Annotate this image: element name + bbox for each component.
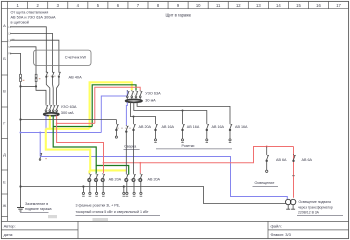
svg-text:Е: Е	[3, 180, 6, 185]
svg-text:Освещение подвала: Освещение подвала	[299, 200, 331, 204]
breaker welding phase AB 20A	[133, 117, 136, 174]
label RCD1	[61, 104, 77, 115]
wire: feed to welding pole breaker	[21, 119, 117, 121]
svg-text:4: 4	[77, 3, 80, 8]
label AB 6A no.2	[302, 158, 313, 162]
label AB 6A no.1	[276, 158, 287, 162]
label AB 20A welding	[139, 125, 152, 129]
svg-text:300 мА: 300 мА	[61, 110, 74, 115]
svg-text:АВ 16А: АВ 16А	[162, 125, 175, 129]
svg-text:3: 3	[57, 3, 60, 8]
svg-text:АВ 40А: АВ 40А	[69, 75, 83, 80]
svg-text:Фамил: 3/3: Фамил: 3/3	[271, 232, 292, 237]
wires: AB40A outputs to RCD1	[46, 77, 59, 104]
svg-text:7: 7	[137, 3, 140, 8]
svg-text:15: 15	[296, 3, 301, 8]
note: feed from branch panel	[11, 11, 56, 25]
label: basement lighting via transformer	[297, 200, 343, 215]
svg-text:Сварка: Сварка	[124, 144, 136, 148]
svg-text:В: В	[3, 89, 6, 94]
svg-text:1: 1	[16, 3, 19, 8]
wire L2 supply	[8, 34, 52, 73]
RCD U1 УЗО 63А 300мА (4-pole)	[44, 104, 59, 115]
svg-text:дата:: дата:	[4, 232, 14, 237]
node: group2 PE tap	[123, 185, 125, 187]
svg-text:А: А	[3, 23, 6, 28]
svg-text:14: 14	[276, 3, 281, 8]
RCD U2 УЗО 63А 30мА (4-pole)	[126, 90, 143, 102]
svg-text:файл:: файл:	[271, 224, 282, 229]
svg-text:2: 2	[37, 3, 40, 8]
wire N blue: branch down	[39, 133, 41, 157]
labels AB 16A row	[162, 125, 249, 129]
node: welding phase tap	[133, 116, 135, 118]
title block (author / date / file rows)	[1, 221, 348, 238]
group1 PE terminal	[82, 187, 85, 197]
wire green: branch down to socket groups	[53, 127, 129, 175]
node: middle feed junction	[19, 118, 21, 120]
wire yellow: RCD1 pole2 down	[49, 116, 51, 129]
wire red: up-loop to RCD2	[95, 87, 140, 123]
svg-text:Б: Б	[3, 56, 6, 61]
svg-text:16: 16	[316, 3, 321, 8]
svg-text:N: N	[8, 47, 10, 49]
wire yellow: branch down to socket groups	[46, 129, 127, 171]
svg-text:АВ 6А: АВ 6А	[276, 158, 287, 162]
svg-text:в щитовой: в щитовой	[11, 21, 29, 25]
wire red: lighting branch down	[293, 147, 295, 198]
svg-text:PE: PE	[8, 54, 12, 56]
node: AB16A no.2 tap	[182, 110, 184, 112]
svg-text:Счетчик kW: Счетчик kW	[65, 54, 87, 59]
svg-text:L2: L2	[8, 34, 11, 36]
wire: RCD2 out to AB16A no.2 and no.3	[134, 102, 207, 123]
wire: N link to meter output	[21, 85, 37, 87]
transformer T1 220/12V	[286, 199, 296, 209]
label AB 20A group1	[109, 177, 122, 181]
svg-text:17: 17	[336, 3, 341, 8]
wire green: stub to G1 breaker2	[95, 166, 97, 174]
wire L1 supply	[8, 27, 46, 73]
breaker welding pole A	[115, 120, 118, 139]
wire N blue: RCD1 pole1 down	[45, 116, 47, 133]
label sockets circuit	[156, 144, 232, 149]
svg-text:8: 8	[157, 3, 160, 8]
socket breakers AB 16A x4	[154, 123, 232, 142]
svg-text:УЗО 63А: УЗО 63А	[61, 104, 77, 109]
wire red: RCD1 pole4 down	[56, 116, 58, 124]
svg-text:От щита ответвления: От щита ответвления	[11, 11, 49, 15]
node blue branch	[39, 132, 41, 134]
node: PE bus junction	[19, 185, 21, 187]
label welding circuit	[124, 144, 140, 149]
wire green: RCD1 pole3 down	[52, 116, 54, 127]
svg-text:АВ 16А: АВ 16А	[212, 125, 225, 129]
label AB 40A	[69, 75, 83, 80]
svg-text:УЗО 63А: УЗО 63А	[145, 92, 161, 96]
wire: N into RCD1	[36, 86, 46, 104]
node red corner	[56, 123, 58, 125]
pole link dashes RCD1	[47, 107, 56, 109]
svg-text:30 мА: 30 мА	[145, 99, 156, 103]
wire green: upper horizontal	[53, 126, 92, 128]
wire yellow: up-loop to RCD2	[90, 82, 132, 129]
svg-text:токарный станок 5 кВт и сверли: токарный станок 5 кВт и сверлильный 1 кВ…	[76, 210, 149, 214]
node blue on riser	[20, 132, 22, 134]
ground electrode symbol	[17, 206, 24, 212]
svg-text:Щит в гараже: Щит в гараже	[166, 13, 192, 18]
svg-text:АВ 16А: АВ 16А	[187, 125, 200, 129]
pole link dashes group2	[127, 179, 139, 181]
label: 3-phase sockets note	[76, 203, 161, 215]
svg-text:12: 12	[236, 3, 241, 8]
wire N blue: long run to transformer	[40, 157, 287, 200]
svg-text:Д: Д	[3, 152, 6, 157]
node: group1 PE tap	[82, 185, 84, 187]
svg-text:АВ 6А: АВ 6А	[302, 158, 313, 162]
PE bus to transformer	[21, 187, 287, 204]
wire green: up-loop to RCD2	[92, 85, 136, 127]
wire N blue: up-loop to RCD2	[101, 90, 127, 132]
node red junction G1	[103, 162, 105, 164]
svg-text:Ж: Ж	[3, 203, 7, 208]
switch on N riser	[35, 74, 40, 81]
svg-text:АВ 50А и УЗО 63А 300мА: АВ 50А и УЗО 63А 300мА	[11, 16, 56, 20]
socket group1 breakers AB 20A (3x)	[88, 173, 105, 196]
svg-text:220В/12 В 3А: 220В/12 В 3А	[298, 211, 320, 215]
wire PE supply	[8, 53, 20, 207]
svg-text:13: 13	[256, 3, 261, 8]
svg-text:5: 5	[97, 3, 100, 8]
node red junction G2	[139, 162, 141, 164]
svg-text:10: 10	[196, 3, 201, 8]
wire red: stub to G2 breaker3	[139, 163, 141, 174]
svg-text:через трансформатор: через трансформатор	[298, 206, 333, 210]
svg-text:6: 6	[117, 3, 120, 8]
svg-text:3 фазные розетки 3L + PE,: 3 фазные розетки 3L + PE,	[76, 203, 121, 207]
wire: RCD2 out to AB16A no.1	[130, 102, 155, 123]
wire N supply	[8, 47, 36, 87]
wire red: upper horizontal	[57, 122, 95, 124]
kWh meter box	[34, 50, 91, 65]
circuit breaker AB 40A (3-pole)	[46, 71, 61, 77]
wire: drop to AB16A no.2	[182, 111, 184, 124]
node: N-meter link junction	[19, 85, 21, 87]
node: lighting tap	[266, 146, 268, 148]
svg-text:Освещение: Освещение	[255, 181, 275, 185]
wire N blue: horizontal to PE riser	[21, 132, 102, 134]
label: meter kW	[65, 54, 87, 59]
svg-text:АВ 20А: АВ 20А	[148, 177, 161, 181]
pole link dashes group1	[90, 179, 102, 181]
wire red: stub to G1 breaker3	[103, 163, 105, 174]
breaker AB 6A no.2 (on red wire)	[292, 154, 296, 176]
note: garage panel	[166, 13, 192, 18]
wire yellow: upper horizontal	[46, 128, 90, 130]
wire L3 supply	[8, 39, 59, 72]
pole link dashes AB40A	[47, 75, 58, 77]
svg-text:L1: L1	[8, 27, 11, 29]
svg-text:9: 9	[177, 3, 180, 8]
svg-text:L3: L3	[8, 40, 11, 42]
svg-text:Автор:: Автор:	[4, 224, 16, 229]
scan artifact smudges	[48, 215, 108, 221]
label RCD2	[145, 92, 161, 103]
group2 PE terminal	[123, 187, 126, 197]
svg-text:АВ 20А: АВ 20А	[109, 177, 122, 181]
svg-text:11: 11	[216, 3, 221, 8]
svg-text:АВ 16А: АВ 16А	[235, 125, 248, 129]
svg-text:Заземление в: Заземление в	[25, 202, 48, 206]
wire: RCD2 out to AB16A no.4	[137, 102, 230, 123]
label: grounding in garage basement	[20, 202, 52, 213]
pole link dashes welding	[117, 127, 132, 129]
wire yellow: stub to G1 breaker1	[88, 170, 90, 173]
breaker AB 6A no.1	[266, 147, 269, 173]
label lighting	[253, 181, 279, 186]
wire red: branch down	[57, 123, 104, 162]
breaker welding pole B	[125, 125, 128, 173]
label AB 20A group2	[148, 177, 161, 181]
svg-text:Г: Г	[3, 120, 6, 125]
wire red: run to lighting	[104, 147, 294, 163]
wire: RCD2 N output to welding breaker	[125, 102, 128, 125]
main switch QS on left riser	[20, 74, 25, 81]
pole link dashes RCD2	[128, 93, 139, 95]
svg-text:АВ 20А: АВ 20А	[139, 125, 152, 129]
svg-text:Розетки: Розетки	[182, 144, 195, 148]
node: N wire junction	[35, 85, 37, 87]
socket group2 breakers AB 20A (3x)	[125, 173, 143, 196]
svg-text:подвале гаража: подвале гаража	[25, 207, 52, 211]
switch on N branch	[39, 153, 47, 160]
